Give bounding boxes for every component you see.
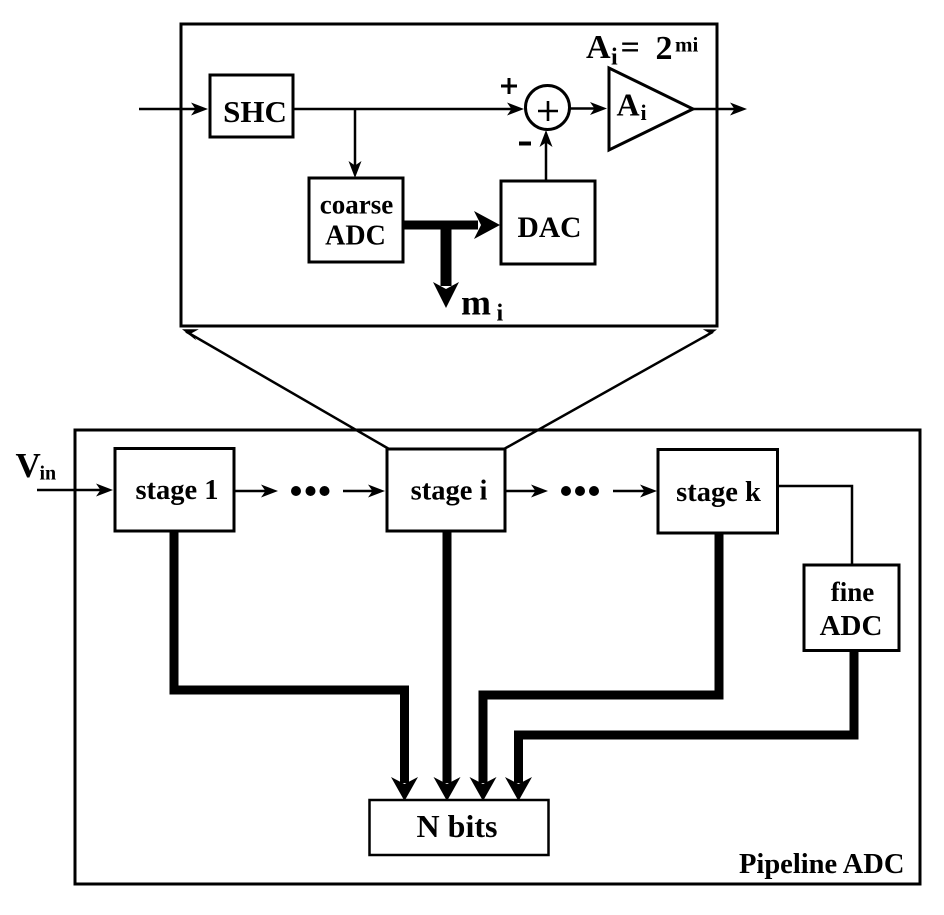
svg-text:stage i: stage i [411, 476, 488, 507]
callout arrowhead left [182, 329, 199, 340]
arrowhead into summer [507, 103, 524, 116]
input wire into stage detail [139, 108, 203, 111]
svg-text:A: A [617, 87, 640, 123]
bus arrowhead 1 [391, 777, 418, 801]
wire DAC up to summer [545, 135, 548, 181]
fine ADC box [804, 565, 899, 651]
svg-text:m: m [461, 283, 491, 323]
bus fine ADC to N bits [519, 650, 855, 783]
amplifier A1 triangle [609, 68, 693, 150]
arrowhead into stage 1 [96, 484, 113, 497]
DAC box [501, 181, 595, 264]
arrowhead into SHC [191, 103, 208, 116]
output wire [693, 108, 742, 111]
plus sign label [501, 85, 517, 88]
coarse ADC box [309, 178, 403, 262]
svg-text:2: 2 [656, 30, 673, 67]
pipeline ADC outer box [75, 430, 920, 884]
stage i box [387, 449, 505, 531]
svg-text:mi: mi [675, 33, 698, 57]
arrowhead up into summer [540, 130, 553, 147]
wire branch down to coarse ADC [354, 109, 357, 172]
wire stage k to fine ADC [778, 486, 853, 565]
thick bus coarse ADC to DAC [403, 221, 478, 230]
svg-text:SHC: SHC [223, 94, 287, 129]
svg-text:A: A [586, 29, 611, 66]
svg-text:i: i [641, 100, 647, 125]
ellipsis dots right [561, 486, 571, 496]
svg-text:Pipeline ADC: Pipeline ADC [739, 849, 904, 880]
bus arrowhead 3 [470, 777, 497, 801]
bus stage 1 to N bits [174, 531, 405, 783]
N bits box [370, 800, 549, 855]
svg-text:ADC: ADC [820, 610, 883, 642]
svg-text:fine: fine [831, 577, 875, 607]
stage k box [658, 450, 778, 534]
arrowhead [261, 485, 278, 498]
svg-text:coarse: coarse [320, 190, 393, 220]
output arrowhead [730, 103, 747, 116]
svg-text:i: i [497, 301, 504, 327]
Vin input wire [37, 489, 108, 492]
thick arrowhead into DAC [474, 211, 500, 239]
svg-text:stage k: stage k [676, 477, 761, 508]
bus stage k to N bits [483, 533, 719, 783]
svg-text:V: V [16, 446, 41, 485]
stage detail outer box [181, 24, 717, 326]
thick bus down to mi [441, 221, 452, 286]
svg-text:i: i [611, 45, 618, 71]
wire SHC to summer [293, 108, 519, 111]
bus arrowhead 2 [434, 777, 461, 801]
wire stage 1 to dots [234, 490, 273, 493]
svg-text:=: = [621, 29, 640, 66]
svg-text:N bits: N bits [417, 808, 498, 844]
wire dots to stage k [613, 490, 652, 493]
callout line right [504, 332, 713, 449]
bus arrowhead 4 [505, 777, 532, 801]
svg-text:in: in [40, 463, 57, 485]
stage 1 box [115, 449, 234, 532]
callout arrowhead right [702, 329, 717, 340]
thick arrowhead mi [433, 282, 459, 308]
arrowhead [368, 485, 385, 498]
svg-text:ADC: ADC [325, 221, 386, 252]
svg-text:DAC: DAC [518, 212, 582, 244]
arrowhead into amplifier [590, 102, 607, 115]
callout line left [186, 332, 389, 450]
arrowhead [640, 485, 657, 498]
bus stage i to N bits [443, 531, 452, 783]
wire summer to amplifier [570, 107, 602, 110]
wire dots to stage i [343, 490, 380, 493]
SHC box U1 [210, 75, 293, 137]
arrowhead [531, 485, 548, 498]
wire stage i to dots [505, 490, 543, 493]
svg-text:stage 1: stage 1 [135, 475, 218, 506]
plus inside summer [538, 110, 558, 113]
ellipsis dots left [291, 486, 301, 496]
minus sign label [519, 142, 531, 146]
summer circle [526, 86, 570, 130]
arrowhead into coarse ADC [349, 161, 362, 178]
